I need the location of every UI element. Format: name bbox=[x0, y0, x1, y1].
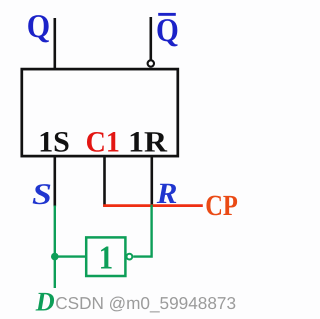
junction node D bbox=[51, 253, 59, 261]
svg-text:CP: CP bbox=[205, 190, 238, 222]
label Q-bar overline bbox=[158, 13, 176, 16]
wire 1R input bbox=[151, 156, 154, 207]
inverter output bubble bbox=[126, 254, 132, 260]
wire Q-bar output bbox=[150, 17, 153, 60]
svg-text:D: D bbox=[35, 287, 55, 317]
svg-text:Q: Q bbox=[156, 13, 179, 49]
latch body U1 bbox=[22, 69, 178, 156]
inversion bubble on Q-bar bbox=[148, 60, 154, 66]
wire C1 input bbox=[103, 156, 106, 207]
svg-text:1: 1 bbox=[99, 239, 113, 276]
wire CP (red) bbox=[103, 204, 203, 207]
wire inverter output to R (green) bbox=[133, 205, 151, 257]
wire junction to inverter input (green) bbox=[55, 255, 87, 257]
wire 1S input bbox=[53, 156, 56, 207]
svg-text:1S: 1S bbox=[38, 127, 70, 159]
svg-text:Q: Q bbox=[27, 9, 50, 45]
svg-text:S: S bbox=[32, 178, 52, 211]
svg-text:CSDN @m0_59948873: CSDN @m0_59948873 bbox=[55, 293, 236, 313]
inverter gate G1 body bbox=[86, 237, 125, 276]
svg-text:C1: C1 bbox=[86, 127, 120, 159]
wire D to S (green) bbox=[54, 206, 56, 289]
svg-text:1R: 1R bbox=[128, 127, 168, 159]
svg-text:R: R bbox=[156, 178, 178, 210]
wire Q output bbox=[53, 18, 56, 70]
